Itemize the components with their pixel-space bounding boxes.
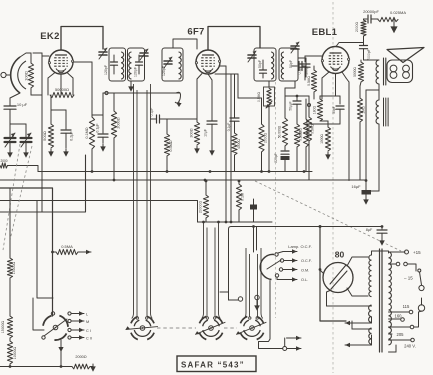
contact L — [68, 312, 71, 315]
resistor 0.5MΩ pot — [257, 87, 275, 106]
contact CII — [68, 336, 71, 339]
svg-text:8µF: 8µF — [366, 228, 373, 232]
ground under trimmer2 — [23, 142, 29, 158]
wire hv top out — [372, 251, 389, 255]
wire y292 — [220, 291, 229, 293]
arrow CI — [72, 328, 91, 333]
label 160 — [395, 314, 403, 319]
terminal phono 2 — [254, 295, 260, 310]
wire S2 top — [254, 227, 257, 253]
osc trimmer — [164, 57, 172, 68]
svg-text:EK2: EK2 — [40, 31, 59, 42]
capacitor 7000pF — [360, 43, 372, 61]
osc coil — [179, 52, 182, 79]
arrow L — [72, 311, 89, 316]
svg-text:0.5MΩ: 0.5MΩ — [307, 76, 311, 86]
dashed vertical x272 — [275, 82, 277, 318]
power transformer HV winding — [369, 255, 372, 297]
osc box — [162, 48, 183, 81]
bus y212 — [0, 155, 86, 212]
wire grid EK2 — [33, 53, 49, 56]
wire -15 link — [408, 264, 417, 271]
svg-text:220pF: 220pF — [274, 153, 278, 162]
svg-text:50pF: 50pF — [289, 60, 293, 68]
IF2 box — [128, 48, 145, 81]
wire big b — [421, 298, 423, 305]
svg-text:4000Ω: 4000Ω — [237, 139, 241, 149]
capacitor 10µF 6F7 — [204, 74, 218, 148]
wire antenna to 100Ω — [30, 53, 32, 63]
svg-text:2000Ω: 2000Ω — [75, 355, 86, 359]
S2 arrow2 — [284, 258, 297, 262]
label 240V — [404, 344, 416, 349]
IF1 box — [109, 48, 126, 81]
capacitor 10µF — [4, 102, 28, 118]
arrow M — [72, 319, 90, 324]
resistor 15000Ω a — [7, 258, 16, 278]
resistor 180Ω — [313, 99, 323, 121]
svg-text:0.025MA: 0.025MA — [390, 10, 406, 15]
ground 0.1µF — [100, 144, 106, 152]
wire to bottom bus — [9, 364, 11, 367]
heater winding 2 — [369, 328, 372, 344]
resistor 10000Ω — [7, 338, 17, 364]
IF4 coil — [281, 52, 284, 79]
svg-text:C II: C II — [86, 337, 92, 341]
resistor 0.1M — [236, 184, 244, 210]
wire switch box — [33, 201, 53, 331]
label 120pF osc — [162, 66, 166, 76]
contact CI — [68, 328, 71, 331]
SAFAR 543 label box — [177, 356, 256, 372]
ground IF boxes — [128, 81, 134, 92]
label OCF — [301, 259, 312, 263]
heater arrow 1 — [287, 336, 302, 340]
trimmer C-ant2 — [21, 133, 32, 147]
wire 80 left — [319, 268, 323, 273]
capacitor 0.1µF ebl-g — [298, 56, 311, 80]
wire det top — [285, 81, 295, 96]
resistor 0.5MA horizontal — [51, 244, 91, 255]
wire to trimmers — [10, 118, 26, 137]
wire gang1 feeders — [132, 84, 153, 319]
ground 0.025MA — [390, 20, 397, 34]
svg-text:2000Ω: 2000Ω — [117, 117, 121, 128]
wire power left edge — [319, 225, 346, 321]
svg-text:50.000Ω: 50.000Ω — [278, 125, 282, 138]
wire ebl k — [320, 92, 340, 99]
svg-text:7000pF: 7000pF — [367, 49, 371, 61]
label -15 — [404, 276, 413, 281]
IF2 coil — [129, 52, 132, 79]
svg-text:O.C.F.: O.C.F. — [301, 259, 312, 263]
dashed gang link — [157, 327, 237, 329]
wire heater1 arrows — [345, 317, 372, 325]
terminal heater node — [283, 347, 287, 351]
gang capacitor CV3 — [236, 316, 266, 339]
resistor 50.000Ω — [278, 118, 288, 146]
svg-text:C I: C I — [86, 329, 91, 333]
svg-text:0.1µF: 0.1µF — [96, 123, 100, 133]
capacitor 16µF — [351, 184, 379, 195]
svg-text:1MΩ: 1MΩ — [362, 106, 366, 114]
label 205 — [397, 332, 405, 337]
dashed diagonal left b — [3, 144, 20, 250]
resistor 500Ω — [42, 124, 54, 148]
ground 10µF — [209, 148, 215, 156]
resistor 0.5MΩ det — [294, 104, 302, 171]
wire switch to bus — [58, 340, 63, 367]
terminal mid b — [404, 262, 408, 266]
capacitor 8µF — [366, 227, 387, 246]
wire antenna-top — [20, 53, 31, 57]
svg-text:20000pF: 20000pF — [363, 9, 379, 14]
arrow coupling — [176, 101, 181, 107]
resistor 300Ω — [190, 119, 200, 145]
resistor 20000Ω — [199, 195, 209, 218]
svg-text:SAFAR “543”: SAFAR “543” — [181, 361, 245, 370]
switch lever right — [418, 269, 422, 285]
capacitor 0.2µF — [61, 130, 74, 148]
svg-text:10µF: 10µF — [204, 129, 208, 137]
svg-text:20000Ω: 20000Ω — [199, 201, 203, 213]
svg-text:0.1µF: 0.1µF — [298, 66, 302, 75]
svg-text:120pF: 120pF — [162, 66, 166, 76]
gang3 feeders — [244, 248, 263, 319]
resistor 0.3MΩ — [306, 96, 314, 180]
svg-text:15000Ω: 15000Ω — [1, 320, 5, 333]
label EK2 — [40, 31, 59, 42]
wire 0.1M — [238, 180, 241, 222]
ground under trimmer1 — [7, 142, 13, 158]
label OL — [301, 278, 308, 282]
trimmer C-ant1 — [5, 133, 16, 147]
svg-text:240 V.: 240 V. — [404, 344, 416, 349]
S2 wiper — [267, 260, 281, 269]
wire 0.5M eblg — [313, 66, 315, 99]
label 80 — [335, 250, 345, 260]
wire 6F7 grid row — [167, 74, 202, 120]
S2 contact 1 — [275, 253, 278, 256]
svg-text:16µF: 16µF — [351, 184, 361, 189]
terminal 160 — [401, 318, 405, 322]
svg-text:300Ω: 300Ω — [190, 128, 194, 137]
terminal 115 — [409, 310, 413, 314]
wire vertical x42 — [41, 53, 43, 212]
wire 15000a-b — [9, 278, 11, 316]
svg-text:– 15: – 15 — [404, 276, 413, 281]
svg-text:100Ω: 100Ω — [24, 71, 29, 81]
label 50pF b — [289, 60, 293, 68]
terminal 240 — [411, 338, 415, 342]
svg-text:180Ω: 180Ω — [313, 105, 317, 114]
trimmer IF1a — [99, 48, 107, 59]
trimmer IF4a — [291, 42, 299, 53]
svg-text:10000Ω: 10000Ω — [13, 346, 17, 359]
contact M — [68, 319, 71, 322]
capacitor 20000pF — [363, 9, 379, 23]
label EBL1 — [312, 27, 338, 38]
svg-text:2000Ω: 2000Ω — [355, 21, 359, 32]
resistor 0.5MΩ ebl-g — [307, 70, 317, 92]
wire EK2 plate to IF1 — [61, 27, 103, 51]
wire cathode net — [51, 95, 66, 129]
speaker magnet box — [387, 60, 413, 83]
wire IF4 right — [298, 58, 306, 77]
band switch wiper — [44, 319, 67, 336]
capacitor 0.1µF col — [227, 74, 239, 131]
svg-text:2000Ω: 2000Ω — [264, 132, 268, 143]
field core — [384, 98, 389, 126]
bus y226 junctions — [252, 225, 383, 228]
IF4 box — [279, 48, 298, 81]
svg-text:0.5MA: 0.5MA — [61, 244, 73, 249]
terminal +15 — [405, 250, 422, 255]
IF3 box — [254, 48, 276, 81]
ground 2000Ω — [90, 364, 96, 372]
frame antenna A1 — [1, 57, 26, 93]
IF1 cap — [111, 55, 118, 74]
svg-text:50µµF: 50µµF — [289, 101, 293, 110]
resistor 4000Ω col — [232, 121, 241, 171]
svg-text:115: 115 — [403, 304, 410, 309]
wire 100Ω bottom to bus — [31, 88, 42, 95]
svg-text:0.1µF: 0.1µF — [150, 108, 154, 117]
trimmer IF2a — [140, 49, 148, 60]
svg-text:+15: +15 — [413, 250, 421, 255]
svg-text:0.5MΩ: 0.5MΩ — [299, 128, 303, 138]
svg-text:80: 80 — [335, 250, 345, 260]
contact top — [51, 312, 54, 315]
capacitor 220pF — [274, 146, 290, 172]
svg-text:120pF: 120pF — [104, 65, 108, 75]
wire primary taps — [389, 252, 412, 352]
wire y98 — [238, 97, 262, 99]
S2 contact 2 — [280, 259, 283, 262]
S2 arrow3 — [283, 267, 297, 271]
resistor 15000Ω b — [1, 316, 13, 338]
capacitor 50µµF — [289, 96, 302, 111]
heater arrow 2 — [287, 346, 301, 350]
resistor 0.5MΩ det2 — [299, 119, 309, 147]
svg-text:O.L.: O.L. — [301, 278, 308, 282]
svg-text:10 µF: 10 µF — [17, 102, 28, 107]
field coil — [376, 92, 379, 124]
resistor 0.1MΩ — [85, 117, 95, 149]
wire pot — [266, 101, 272, 172]
svg-text:2000: 2000 — [0, 159, 7, 163]
gang capacitor CV2 — [195, 316, 225, 339]
svg-text:0.5MΩ: 0.5MΩ — [257, 92, 261, 103]
svg-text:500Ω: 500Ω — [42, 131, 47, 141]
capacitor 100pF — [292, 62, 309, 75]
svg-text:0.1M: 0.1M — [241, 193, 245, 201]
S2 arrow4 — [277, 277, 297, 282]
label 120pF IF1 — [104, 65, 108, 75]
svg-text:Lamp. O.C.F.: Lamp. O.C.F. — [288, 244, 312, 249]
wire heater2 top — [352, 321, 372, 329]
wire osc to 6F7 grid — [173, 39, 197, 49]
svg-text:EBL1: EBL1 — [312, 27, 338, 38]
gang capacitor CV1 — [126, 316, 158, 339]
power transformer primary — [389, 252, 392, 345]
wire left column — [9, 188, 11, 258]
wire heater1 — [327, 290, 372, 306]
S2 contact 4 — [275, 274, 278, 277]
bottom bus — [0, 365, 72, 368]
power transformer core — [380, 249, 383, 352]
wire heater2 arrows — [345, 335, 372, 347]
label OM — [301, 269, 309, 273]
ground 500Ω — [48, 149, 54, 157]
resistor 2000Ω det — [259, 98, 268, 173]
svg-text:L: L — [86, 313, 88, 317]
svg-text:5000Ω: 5000Ω — [353, 67, 357, 77]
wire 6F7 pin row — [215, 66, 238, 222]
capacitor 0.1µF grid2 — [96, 115, 109, 143]
wire det2 — [306, 99, 340, 172]
arrow CII — [72, 335, 92, 340]
svg-text:50000Ω: 50000Ω — [55, 87, 69, 92]
svg-text:M: M — [86, 320, 89, 324]
IF3 cap — [260, 60, 267, 78]
svg-text:50pF: 50pF — [258, 60, 262, 68]
tube 80 — [323, 263, 353, 293]
label 50pF a — [258, 60, 262, 68]
wire coupling y93 — [103, 91, 181, 103]
bus y180 — [0, 179, 366, 181]
dashed diagonal left a — [10, 146, 32, 240]
resistor 1000Ω ebl — [320, 127, 331, 151]
tube EBL1 — [321, 47, 349, 74]
wire field — [365, 90, 379, 191]
bus y171 — [38, 171, 312, 173]
trimmer IF3a — [248, 51, 256, 62]
svg-text:15000Ω: 15000Ω — [12, 261, 16, 274]
svg-text:O.M.: O.M. — [301, 269, 309, 273]
svg-text:6F7: 6F7 — [187, 27, 204, 38]
bus y200 — [0, 201, 198, 223]
terminal phono 1 — [238, 297, 242, 301]
wire antenna bottom — [10, 93, 20, 103]
label left-edge — [0, 159, 7, 163]
resistor 50000Ω — [50, 87, 74, 98]
label 115a — [403, 304, 410, 309]
output transformer core — [384, 58, 386, 85]
svg-text:0.1µF: 0.1µF — [227, 123, 231, 132]
terminal big b — [418, 305, 424, 311]
wire 80 plate top — [347, 257, 368, 266]
svg-text:50pF: 50pF — [332, 106, 336, 114]
speaker cone — [387, 48, 424, 63]
svg-text:1000Ω: 1000Ω — [320, 134, 324, 144]
resistor 5000Ω — [353, 60, 364, 82]
resistor 2000Ω bottom — [72, 355, 90, 369]
svg-text:0.2µF: 0.2µF — [70, 130, 74, 140]
bus y188 left — [0, 188, 53, 316]
IF1 coil — [121, 52, 124, 79]
wire primary bottom — [366, 84, 379, 90]
wire 80 plate bottom — [347, 288, 368, 296]
wire x103 node — [92, 93, 103, 115]
terminal big a — [419, 285, 424, 290]
heater winding 1 — [369, 305, 372, 322]
ground 0.2µF — [63, 149, 69, 157]
wire EK2 right to grid2 column — [73, 62, 92, 117]
wire det net — [285, 95, 309, 118]
band switch hub — [53, 325, 58, 330]
band switch S1 arc — [43, 316, 68, 340]
resistor 2000Ω top — [355, 20, 366, 43]
wire 2000Ω mid — [113, 93, 115, 181]
S2 arrow1 — [278, 249, 297, 253]
svg-text:0.3MΩ: 0.3MΩ — [311, 124, 315, 134]
ground 300Ω — [194, 146, 200, 154]
wire 1000Ω — [320, 121, 331, 160]
label 6F7 — [187, 27, 204, 38]
power switch S2 arc — [260, 254, 274, 279]
dashed diagonal right — [255, 181, 401, 251]
wire ebl pins — [322, 72, 349, 181]
terminal mid a — [396, 262, 400, 266]
wire S2 down — [259, 281, 283, 349]
wire plate node to primary — [364, 59, 380, 61]
svg-text:205: 205 — [397, 332, 405, 337]
IF3 coil — [271, 52, 274, 79]
IF2 cap — [136, 55, 143, 74]
wire EK2 pins — [48, 73, 73, 96]
wire ebl plate — [336, 43, 364, 47]
svg-text:0.5MΩ: 0.5MΩ — [169, 140, 173, 151]
label Lamp OCF — [288, 244, 312, 249]
tube 6F7 — [195, 50, 220, 74]
wire IF3 bottom — [268, 81, 270, 87]
phono box — [229, 227, 383, 301]
resistor 1MΩ ebl — [357, 98, 365, 122]
wire 0.5M 6F7 — [166, 119, 168, 172]
S2 contact 3 — [279, 268, 282, 271]
wire term x — [414, 311, 422, 327]
wire 20000Ω — [205, 180, 208, 222]
junction dots bus — [91, 170, 306, 181]
capacitor 50pF ebl — [332, 99, 344, 119]
label 120pF IF2 — [134, 67, 138, 77]
capacitor blob — [250, 199, 257, 222]
resistor 0.5MΩ 6F7 — [164, 134, 173, 156]
tube EK2 — [48, 50, 73, 74]
bus y221 — [198, 221, 273, 224]
svg-text:0.1MΩ: 0.1MΩ — [85, 127, 89, 138]
terminal x — [410, 325, 414, 329]
output transformer primary — [376, 60, 379, 84]
contact wiper-end — [42, 336, 45, 339]
wire 6F7 plate to IF3 — [208, 27, 260, 51]
gang2 feeders — [202, 222, 221, 320]
resistor 0.025MA — [378, 10, 406, 22]
dashed vertical x333 — [332, 2, 334, 373]
wire 0.1MΩ to bus — [91, 149, 93, 172]
svg-text:120pF: 120pF — [134, 67, 138, 77]
resistor left-edge — [0, 163, 38, 172]
wire heater link — [284, 338, 286, 347]
wire 1M ebl — [360, 82, 361, 180]
wire ebl grid — [305, 55, 322, 57]
resistor 100Ω — [24, 63, 34, 88]
resistor 2000Ω mid — [111, 111, 120, 138]
ground 16µF — [363, 195, 369, 205]
capacitor 0.1µF 6F7g — [150, 108, 168, 123]
